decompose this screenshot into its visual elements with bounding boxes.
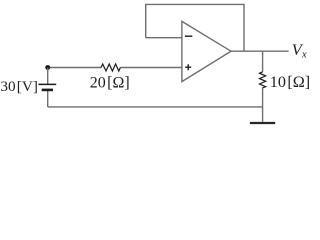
op-amp minus input mark: [185, 35, 192, 37]
node A junction dot: [45, 65, 50, 70]
resistor R2 10[ohm]: [260, 72, 266, 88]
ground: [250, 122, 275, 124]
wire: output to Vx terminal: [231, 50, 289, 52]
op-amp plus input mark: [185, 64, 191, 70]
svg-text:10 [Ω]: 10 [Ω]: [270, 73, 310, 91]
voltage source V1 plates: [39, 84, 57, 90]
resistor R1 20[ohm]: [101, 64, 120, 71]
wire: - input: [146, 37, 182, 39]
wire: ground stub: [262, 107, 264, 122]
wire: + input net from battery node through R1 to op-amp: [48, 67, 182, 69]
svg-text:x: x: [301, 49, 307, 60]
wire: output branch down to R2: [262, 51, 264, 107]
op-amp U1 body: [182, 21, 231, 81]
wire: bottom return: [48, 106, 263, 108]
voltage source V1 30[V] battery leads: [47, 68, 49, 107]
svg-text:30 [V]: 30 [V]: [0, 78, 38, 95]
svg-text:20 [Ω]: 20 [Ω]: [90, 75, 130, 92]
wire: feedback loop: [146, 4, 244, 51]
